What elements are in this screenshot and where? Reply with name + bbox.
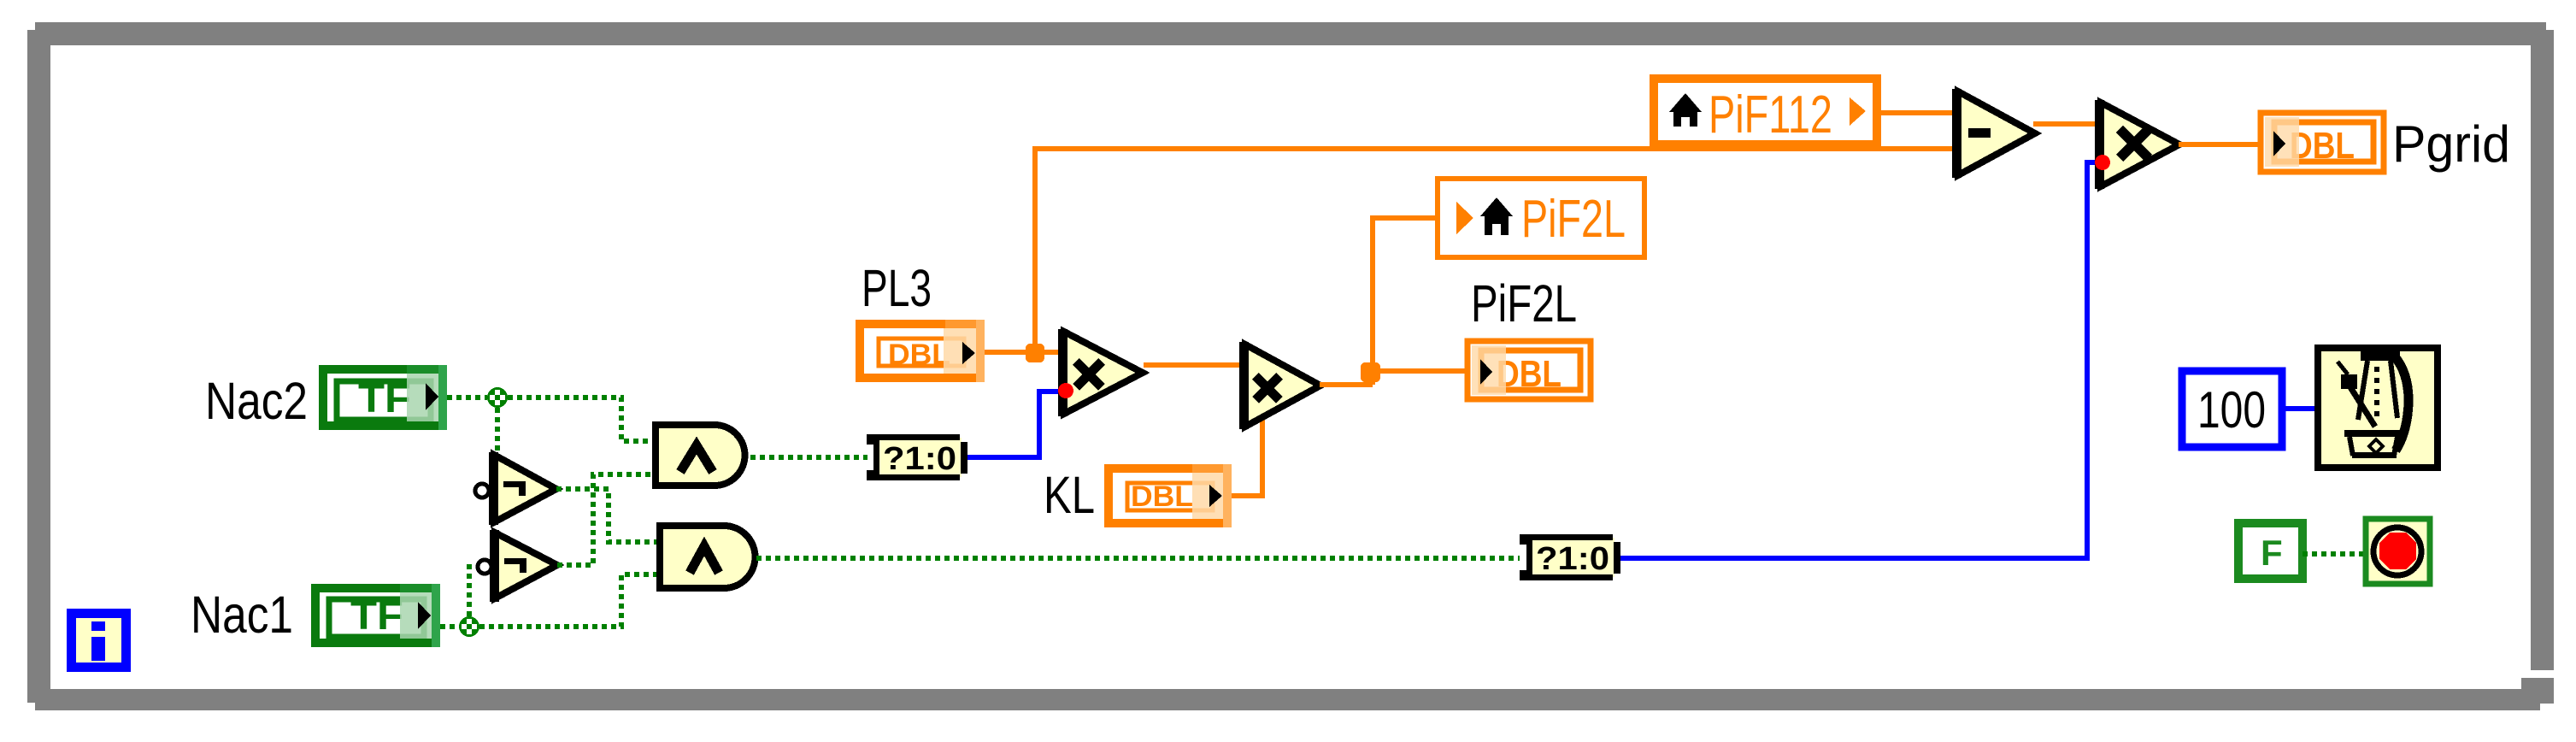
- svg-text:PiF2L: PiF2L: [1471, 274, 1577, 333]
- wire junction B to AND2 bottom: [479, 574, 660, 627]
- boolean control Nac2: [319, 365, 447, 430]
- wire junction A to AND1 top: [508, 397, 656, 441]
- svg-text:Pgrid: Pgrid: [2392, 115, 2510, 173]
- numeric constant 100: [2182, 371, 2282, 447]
- select node 2: [1520, 534, 1620, 580]
- global variable PiF112 (read): [1654, 79, 1877, 144]
- junction A: [487, 387, 508, 408]
- multiply node 2: [1239, 342, 1320, 429]
- wire Nac1 to junction B: [440, 624, 459, 629]
- loop condition stop terminal: [2366, 519, 2430, 584]
- svg-text:DBL: DBL: [2290, 125, 2355, 167]
- boolean control Nac1: [311, 584, 440, 647]
- wire 100 to wait: [2282, 406, 2314, 411]
- multiply node 3: [2095, 100, 2179, 189]
- wire junction2 to PiF2L indicator: [1370, 368, 1465, 374]
- wire PiF112 to subtract top: [1881, 110, 1954, 115]
- AND gate 2: [660, 526, 756, 588]
- junction B: [459, 616, 479, 637]
- iteration terminal i: [67, 609, 131, 672]
- svg-text:Nac2: Nac2: [205, 372, 308, 430]
- svg-text:DBL: DBL: [888, 339, 950, 371]
- wire NOT1 to AND2 top: [556, 489, 660, 542]
- svg-text:DBL: DBL: [1131, 480, 1193, 513]
- numeric control KL: [1104, 464, 1232, 527]
- wire NOT2 to AND1 bottom: [557, 474, 656, 565]
- indicator Pgrid DBL: [2261, 113, 2384, 172]
- wire multiply3 to Pgrid: [2179, 142, 2258, 147]
- svg-text:?1:0: ?1:0: [1536, 541, 1609, 577]
- wire F to stop: [2303, 551, 2366, 556]
- numeric control PL3: [856, 320, 985, 382]
- NOT gate 1: [475, 452, 556, 525]
- select node 1: [867, 434, 967, 480]
- AND gate 1: [656, 425, 745, 486]
- junction orange 2: [1361, 362, 1380, 382]
- wire junction2 up to PiF2L global: [1373, 218, 1438, 385]
- wire select2 to multiply3 (blue): [1620, 162, 2097, 558]
- global variable PiF2L (write): [1438, 179, 1644, 257]
- wire junction1 up and rail to subtract: [1035, 149, 1954, 352]
- wire subtract to multiply3: [2033, 121, 2097, 127]
- junction orange 1: [1026, 344, 1044, 362]
- NOT gate 2: [478, 530, 557, 602]
- svg-text:TF: TF: [358, 375, 411, 421]
- indicator PiF2L DBL: [1467, 341, 1591, 399]
- wire junction A down to NOT1: [495, 408, 500, 454]
- svg-text:PL3: PL3: [862, 259, 932, 317]
- svg-text:KL: KL: [1044, 466, 1095, 524]
- svg-text:F: F: [2261, 533, 2283, 573]
- wire PL3 to multiply1: [985, 350, 1060, 355]
- svg-text:TF: TF: [350, 592, 403, 638]
- subtract node: [1952, 89, 2035, 178]
- wire AND2 to select2: [756, 556, 1520, 561]
- svg-text:?1:0: ?1:0: [883, 441, 956, 477]
- wire multiply1 to multiply2: [1144, 362, 1241, 368]
- boolean constant F: [2238, 523, 2303, 579]
- wire junction B up to NOT2 bubble: [467, 564, 472, 616]
- wire AND1 to select1: [750, 455, 867, 460]
- wire multiply2 to junction2: [1320, 382, 1373, 387]
- wire Nac2 to junction: [447, 395, 487, 400]
- wire select1 to multiply1 (blue): [967, 392, 1060, 457]
- svg-text:PiF112: PiF112: [1709, 85, 1832, 144]
- svg-text:100: 100: [2197, 381, 2266, 439]
- svg-text:Nac1: Nac1: [191, 586, 293, 644]
- svg-text:PiF2L: PiF2L: [1521, 190, 1626, 249]
- wait until next ms multiple: [2318, 348, 2438, 468]
- multiply node 1: [1058, 329, 1143, 416]
- svg-text:DBL: DBL: [1497, 353, 1561, 395]
- wire KL to multiply2: [1232, 410, 1262, 496]
